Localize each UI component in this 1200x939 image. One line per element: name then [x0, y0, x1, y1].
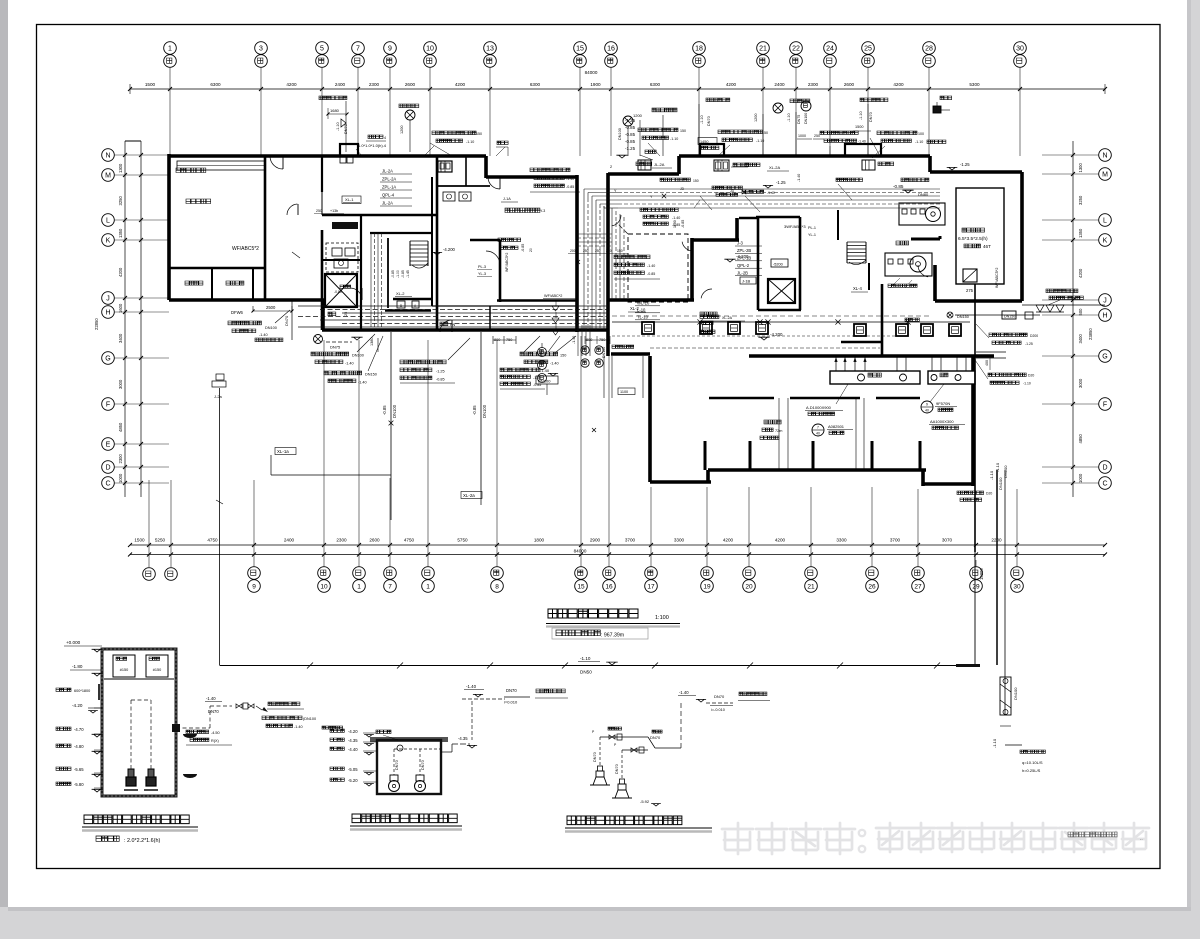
svg-text:3250: 3250	[118, 196, 123, 206]
svg-text:10: 10	[426, 46, 434, 53]
svg-text:4200: 4200	[455, 82, 466, 87]
svg-text:7: 7	[356, 46, 360, 53]
svg-text:DN100: DN100	[1013, 687, 1018, 700]
svg-text:M: M	[1102, 172, 1108, 179]
svg-text:150: 150	[617, 249, 623, 253]
svg-text:24: 24	[826, 46, 834, 53]
svg-text:9: 9	[926, 403, 928, 407]
svg-text:A082501: A082501	[828, 424, 845, 429]
svg-text:250: 250	[316, 209, 322, 213]
svg-text:7: 7	[388, 584, 392, 591]
svg-text:+13b: +13b	[330, 209, 338, 213]
svg-text:250: 250	[606, 249, 612, 253]
svg-text:-5.05: -5.05	[348, 767, 358, 772]
svg-text:250: 250	[595, 249, 601, 253]
svg-text:-1.25: -1.25	[625, 118, 636, 123]
svg-text:DN70: DN70	[421, 760, 425, 770]
svg-text:5250: 5250	[155, 538, 166, 543]
svg-text:13: 13	[486, 46, 494, 53]
svg-text:DFW6: DFW6	[231, 310, 244, 315]
svg-text:25: 25	[344, 312, 348, 316]
svg-text:-1.25: -1.25	[625, 146, 636, 151]
svg-text:5300: 5300	[969, 82, 980, 87]
svg-text:22: 22	[792, 46, 800, 53]
svg-text:WF/ABC5*2: WF/ABC5*2	[505, 253, 509, 272]
svg-text:20: 20	[529, 248, 533, 252]
svg-text:-1.10: -1.10	[992, 738, 997, 748]
svg-text:WF/ABC5*2: WF/ABC5*2	[232, 246, 259, 252]
svg-text:3400: 3400	[118, 333, 123, 343]
svg-text:150: 150	[693, 179, 699, 183]
svg-text:: 2.0*2.2*1.6(h): : 2.0*2.2*1.6(h)	[124, 838, 160, 844]
svg-text:30: 30	[1013, 584, 1021, 591]
svg-text:15: 15	[577, 584, 585, 591]
svg-text:J-1B: J-1B	[742, 279, 751, 284]
svg-text:DN100: DN100	[265, 326, 277, 330]
svg-text:JL-2B: JL-2B	[737, 270, 748, 275]
svg-text:400: 400	[985, 360, 989, 366]
svg-text:-0.85: -0.85	[647, 272, 655, 276]
svg-text:-1.25: -1.25	[776, 180, 786, 185]
svg-text:DN70: DN70	[284, 315, 289, 326]
svg-text:-4.50: -4.50	[211, 731, 220, 735]
svg-text:-1.10: -1.10	[915, 140, 923, 144]
svg-text:WL-10: WL-10	[637, 300, 650, 305]
svg-text:-1.10: -1.10	[670, 137, 678, 141]
svg-text:1300: 1300	[1078, 163, 1083, 173]
svg-text:XL-2A: XL-2A	[722, 316, 733, 320]
svg-text:2600: 2600	[844, 82, 855, 87]
svg-text:AA1000X300: AA1000X300	[930, 419, 954, 424]
svg-text:DN70: DN70	[707, 116, 711, 126]
svg-text:XL-2: XL-2	[396, 291, 405, 296]
svg-text:3250: 3250	[1078, 195, 1083, 205]
svg-text:8: 8	[495, 584, 499, 591]
svg-text:-1.40: -1.40	[797, 174, 801, 182]
svg-text:1000: 1000	[118, 473, 123, 483]
svg-text:1: 1	[426, 584, 430, 591]
svg-text:i=-0.010: i=-0.010	[711, 708, 725, 712]
svg-text:-4.200: -4.200	[770, 332, 783, 337]
svg-text:-1.25: -1.25	[960, 162, 970, 167]
svg-text:1.0*1.0*1.0(h).4: 1.0*1.0*1.0(h).4	[358, 143, 387, 148]
svg-text:-1.80: -1.80	[72, 664, 83, 669]
svg-text:QPL-4: QPL-4	[382, 193, 395, 198]
svg-text:5: 5	[320, 46, 324, 53]
svg-text:-1.40: -1.40	[858, 140, 866, 144]
svg-text:+0.000: +0.000	[66, 640, 81, 645]
svg-text:4200: 4200	[286, 82, 297, 87]
svg-text:ZPL-2B: ZPL-2B	[737, 248, 751, 253]
svg-text:-1.40: -1.40	[358, 381, 367, 385]
svg-text:1500: 1500	[855, 125, 863, 129]
svg-text:1100: 1100	[673, 220, 677, 228]
svg-text:1800: 1800	[534, 538, 545, 543]
svg-text:3700: 3700	[890, 538, 901, 543]
svg-text:9: 9	[388, 46, 392, 53]
svg-text:9F570N: 9F570N	[936, 401, 950, 406]
svg-text:J: J	[1103, 298, 1107, 305]
svg-text:DN70: DN70	[506, 688, 517, 693]
svg-text:DN50: DN50	[580, 670, 592, 675]
svg-text:-1.40: -1.40	[345, 362, 354, 366]
svg-text:21: 21	[807, 584, 815, 591]
svg-text:: 967.39m: : 967.39m	[601, 633, 624, 639]
svg-text:XL-1a: XL-1a	[277, 449, 289, 454]
svg-text:DN75: DN75	[330, 345, 341, 350]
svg-text:Y-3: Y-3	[540, 209, 545, 213]
svg-text:DN70: DN70	[650, 735, 661, 740]
svg-text:2900: 2900	[590, 538, 601, 543]
svg-text:30: 30	[1016, 46, 1024, 53]
svg-text:G: G	[1102, 354, 1107, 361]
svg-text:WF/ABC*2: WF/ABC*2	[544, 294, 562, 298]
svg-text:4850: 4850	[1078, 434, 1083, 444]
svg-text:DN75: DN75	[797, 115, 801, 124]
svg-text:E: E	[106, 442, 111, 449]
svg-text:1380: 1380	[370, 338, 374, 346]
svg-text:150: 150	[560, 354, 566, 358]
svg-text:-1.40: -1.40	[259, 333, 268, 337]
svg-text:-1.10: -1.10	[989, 470, 994, 480]
svg-text:-5.65: -5.65	[74, 767, 84, 772]
svg-text:-0.85: -0.85	[893, 184, 904, 189]
svg-text:-0.85: -0.85	[436, 378, 445, 382]
svg-text:DN100: DN100	[392, 404, 397, 418]
svg-text:4200: 4200	[1078, 268, 1083, 278]
svg-text:250: 250	[583, 249, 589, 253]
svg-text:3300: 3300	[836, 538, 847, 543]
svg-text:27: 27	[914, 584, 922, 591]
svg-text:84000: 84000	[585, 70, 598, 75]
svg-text:DN100: DN100	[804, 113, 808, 124]
svg-text:-1.40: -1.40	[466, 684, 477, 689]
svg-text:-1.40: -1.40	[672, 216, 680, 220]
svg-text:9: 9	[252, 584, 256, 591]
svg-text:3700: 3700	[625, 538, 636, 543]
svg-text:-0.85: -0.85	[382, 405, 387, 415]
svg-text:1350: 1350	[1078, 228, 1083, 238]
svg-text:F: F	[1103, 402, 1107, 409]
svg-text:-1.45: -1.45	[406, 270, 410, 278]
svg-text:-1.10: -1.10	[466, 140, 474, 144]
svg-text:2600: 2600	[369, 538, 380, 543]
svg-text:2400: 2400	[335, 82, 346, 87]
svg-text:QPL-2: QPL-2	[737, 263, 750, 268]
svg-text:TL-10: TL-10	[637, 314, 649, 319]
svg-text:-1.10: -1.10	[580, 656, 591, 661]
svg-text:3WF/ABC*3: 3WF/ABC*3	[784, 224, 806, 229]
svg-text:1:100: 1:100	[655, 615, 669, 621]
svg-text:-1.10: -1.10	[1023, 382, 1031, 386]
svg-text:-1.10: -1.10	[700, 115, 704, 124]
svg-text:K: K	[106, 238, 111, 245]
svg-text:15300: 15300	[979, 568, 984, 580]
svg-text:17: 17	[647, 584, 655, 591]
svg-text:2300: 2300	[118, 454, 123, 464]
svg-text:G: G	[105, 356, 110, 363]
svg-text:-1.10: -1.10	[336, 122, 340, 131]
svg-text:1: 1	[168, 46, 172, 53]
svg-text:6300: 6300	[650, 82, 661, 87]
svg-text:4200: 4200	[775, 538, 786, 543]
svg-text:JL-2A: JL-2A	[654, 162, 665, 167]
svg-text:XL-2: XL-2	[630, 306, 640, 311]
svg-text:XL-1: XL-1	[345, 197, 354, 202]
svg-text:7: 7	[817, 426, 819, 430]
svg-text:(DN100: (DN100	[303, 717, 316, 721]
svg-text:J-3: J-3	[737, 241, 743, 246]
svg-text:DN70: DN70	[615, 764, 619, 774]
svg-text:DN70: DN70	[395, 760, 399, 770]
svg-text:YL-1: YL-1	[808, 233, 816, 237]
svg-text:21: 21	[759, 46, 767, 53]
svg-text:4200: 4200	[893, 82, 904, 87]
svg-text:..: ..	[1140, 836, 1143, 842]
svg-text:1500: 1500	[145, 82, 156, 87]
svg-text:1900: 1900	[590, 82, 601, 87]
svg-text:1450: 1450	[700, 140, 708, 144]
svg-text:C: C	[1102, 481, 1107, 488]
svg-text:1000: 1000	[1078, 473, 1083, 483]
svg-text:5750: 5750	[457, 538, 468, 543]
svg-text:1300: 1300	[118, 163, 123, 173]
svg-text:J3: J3	[730, 189, 734, 193]
svg-text:1000: 1000	[798, 134, 806, 138]
svg-text:J: J	[106, 296, 110, 303]
svg-text:40: 40	[925, 408, 929, 412]
svg-text:6300: 6300	[210, 82, 221, 87]
svg-text:DN150: DN150	[1004, 315, 1015, 319]
svg-text:3400: 3400	[1078, 334, 1083, 344]
svg-text:-4.200: -4.200	[443, 247, 456, 252]
svg-text:1200: 1200	[400, 126, 404, 134]
svg-text:XL-2A: XL-2A	[769, 165, 780, 170]
svg-text:-0.85: -0.85	[625, 132, 636, 137]
svg-text:-0.80: -0.80	[334, 290, 342, 294]
svg-text:ZPL-1A: ZPL-1A	[382, 185, 396, 190]
svg-text:6.5*3.5*2.5(h): 6.5*3.5*2.5(h)	[958, 236, 988, 242]
svg-text:18: 18	[695, 46, 703, 53]
svg-text:DN100: DN100	[618, 128, 622, 140]
svg-text:1350: 1350	[118, 228, 123, 238]
svg-text:D200: D200	[1030, 334, 1038, 338]
svg-text:-4.35: -4.35	[458, 736, 468, 741]
svg-text:150: 150	[680, 129, 686, 133]
svg-text:600*1800: 600*1800	[74, 689, 90, 693]
svg-text:4200: 4200	[118, 267, 123, 277]
svg-text:-1.40: -1.40	[767, 191, 775, 195]
svg-text:2300: 2300	[808, 82, 819, 87]
svg-text:16: 16	[605, 584, 613, 591]
svg-text:A.D1000X900: A.D1000X900	[806, 405, 832, 410]
svg-text:-5.80: -5.80	[74, 782, 84, 787]
svg-text:DN70: DN70	[869, 112, 873, 122]
svg-text:3: 3	[259, 46, 263, 53]
svg-text:23850: 23850	[1088, 328, 1093, 340]
svg-text:4200: 4200	[726, 82, 737, 87]
svg-text:100: 100	[918, 132, 924, 136]
svg-text:H: H	[105, 310, 110, 317]
svg-text:-0.85: -0.85	[472, 405, 477, 415]
svg-text:R(X): R(X)	[211, 739, 220, 743]
svg-text:PL-1: PL-1	[808, 226, 816, 230]
svg-text:#150: #150	[120, 668, 128, 672]
svg-text:XL-4: XL-4	[853, 286, 863, 291]
svg-text:F: F	[106, 402, 110, 409]
svg-text:J3: J3	[680, 187, 684, 191]
svg-text:2500: 2500	[266, 305, 276, 310]
svg-text:1500: 1500	[134, 538, 145, 543]
svg-text:4200: 4200	[723, 538, 734, 543]
svg-text:1680: 1680	[330, 108, 340, 113]
svg-text:15: 15	[576, 46, 584, 53]
svg-text:-4.40: -4.40	[348, 747, 358, 752]
svg-text:250: 250	[814, 134, 820, 138]
svg-text:PL-3: PL-3	[478, 265, 486, 269]
svg-text:-0.85: -0.85	[401, 270, 405, 278]
svg-text:26: 26	[868, 584, 876, 591]
svg-text:4750: 4750	[404, 538, 415, 543]
svg-text:1200: 1200	[754, 114, 758, 122]
svg-text:q=10.10L/S: q=10.10L/S	[1022, 760, 1043, 765]
svg-text:J-1A: J-1A	[503, 197, 511, 201]
svg-text:D20: D20	[986, 492, 992, 496]
svg-text:22850: 22850	[94, 318, 99, 330]
svg-text:XL-2a: XL-2a	[463, 493, 475, 498]
svg-text:-4.20: -4.20	[72, 703, 83, 708]
svg-text:h=0.25L/S: h=0.25L/S	[1022, 768, 1041, 773]
svg-text:DN70: DN70	[593, 752, 597, 762]
svg-text:29: 29	[972, 584, 980, 591]
svg-text:275: 275	[966, 288, 974, 293]
svg-text:4850: 4850	[118, 422, 123, 432]
svg-text:-1.40: -1.40	[572, 336, 576, 344]
svg-text:DN150: DN150	[957, 315, 969, 319]
svg-text:JL-2A: JL-2A	[382, 201, 393, 206]
svg-text:4: 4	[384, 136, 386, 140]
svg-text:2400: 2400	[284, 538, 295, 543]
svg-text:28: 28	[925, 46, 933, 53]
svg-text:N: N	[1102, 153, 1107, 160]
svg-text:3070: 3070	[942, 538, 953, 543]
svg-text:ZPL-1B: ZPL-1B	[737, 256, 751, 261]
svg-text:-0.85: -0.85	[566, 185, 574, 189]
svg-text:DN150: DN150	[365, 373, 377, 377]
svg-text:K: K	[1103, 238, 1108, 245]
svg-text:-5.20: -5.20	[348, 778, 358, 783]
svg-text:-1.00: -1.00	[396, 270, 400, 278]
svg-text:6300: 6300	[530, 82, 541, 87]
svg-text:-1.10: -1.10	[787, 113, 791, 122]
svg-text:-0.85: -0.85	[625, 139, 636, 144]
svg-text:DN100: DN100	[1003, 465, 1008, 478]
svg-text:2300: 2300	[336, 538, 347, 543]
svg-text:DN100: DN100	[352, 354, 364, 358]
svg-text:2: 2	[610, 165, 612, 169]
svg-text:C: C	[105, 481, 110, 488]
svg-text:M: M	[105, 173, 111, 180]
svg-text:40: 40	[816, 431, 820, 435]
svg-text:3000: 3000	[118, 379, 123, 389]
svg-text:1100: 1100	[620, 390, 628, 394]
svg-text:20: 20	[745, 584, 753, 591]
svg-text:D: D	[1102, 465, 1107, 472]
svg-text:2400: 2400	[774, 82, 785, 87]
svg-text:3300: 3300	[674, 538, 685, 543]
svg-text:J-2a: J-2a	[214, 394, 223, 399]
svg-text:-1.40: -1.40	[679, 690, 689, 695]
svg-text:-4.70: -4.70	[74, 727, 84, 732]
svg-text:D20: D20	[1028, 374, 1034, 378]
svg-text:4750: 4750	[207, 538, 218, 543]
svg-text:H: H	[1102, 313, 1107, 320]
svg-text:-4.20: -4.20	[348, 729, 358, 734]
svg-text:72m: 72m	[775, 429, 782, 433]
svg-text:i=0.010: i=0.010	[504, 700, 518, 705]
svg-text:-1.40: -1.40	[294, 725, 303, 729]
svg-text:ZPL-2A: ZPL-2A	[382, 177, 396, 182]
svg-text:#150: #150	[153, 668, 161, 672]
svg-text:-1.25: -1.25	[1025, 342, 1033, 346]
svg-text:200: 200	[570, 249, 576, 253]
svg-text:150: 150	[476, 132, 482, 136]
svg-text:84000: 84000	[574, 549, 587, 554]
svg-text:DN70: DN70	[344, 124, 348, 134]
svg-text:10: 10	[320, 584, 328, 591]
svg-text:L: L	[1103, 218, 1107, 225]
svg-text:-5.92: -5.92	[640, 799, 650, 804]
svg-text:WF/ABC5*2: WF/ABC5*2	[995, 268, 999, 288]
svg-text:-0.85: -0.85	[681, 220, 685, 228]
svg-text:2300: 2300	[369, 82, 380, 87]
svg-text:1: 1	[357, 584, 361, 591]
svg-text:-1.40: -1.40	[647, 264, 655, 268]
svg-text:-1.10: -1.10	[995, 462, 1000, 472]
svg-text:-5200: -5200	[773, 263, 783, 267]
svg-text:-1.40: -1.40	[550, 362, 559, 366]
svg-text:D: D	[105, 465, 110, 472]
svg-text:DN70: DN70	[714, 694, 725, 699]
svg-text:L: L	[106, 218, 110, 225]
svg-text:500: 500	[1078, 308, 1083, 316]
svg-text:-0.85: -0.85	[625, 125, 636, 130]
svg-text:46T: 46T	[983, 244, 991, 249]
svg-text:-1.40: -1.40	[206, 696, 216, 701]
svg-text:-4.80: -4.80	[74, 744, 84, 749]
svg-text:16: 16	[607, 46, 615, 53]
svg-text:25: 25	[864, 46, 872, 53]
svg-text:1600: 1600	[118, 303, 123, 313]
svg-text:N: N	[105, 153, 110, 160]
svg-text:19: 19	[703, 584, 711, 591]
svg-text:2600: 2600	[405, 82, 416, 87]
svg-text:DN70: DN70	[208, 709, 219, 714]
svg-text:-4.35: -4.35	[348, 738, 358, 743]
svg-text:YL-3: YL-3	[478, 272, 486, 276]
svg-text:-1.40: -1.40	[566, 177, 574, 181]
svg-text:-0.85: -0.85	[521, 244, 525, 252]
svg-text:-0.85: -0.85	[391, 270, 395, 278]
svg-text:JL-2A: JL-2A	[382, 169, 393, 174]
svg-text:-1.25: -1.25	[436, 370, 445, 374]
svg-text:3000: 3000	[1078, 378, 1083, 388]
svg-text:DN100: DN100	[482, 404, 487, 418]
svg-text:-1.10: -1.10	[859, 111, 863, 120]
svg-text:-0.85: -0.85	[533, 383, 541, 387]
